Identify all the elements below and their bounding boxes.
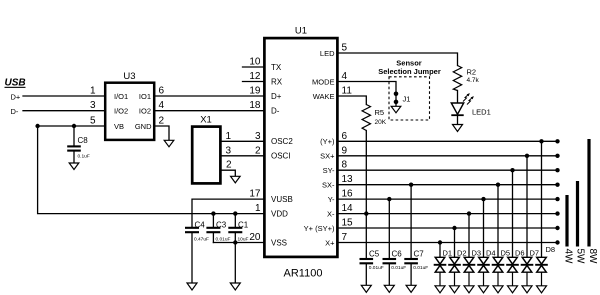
svg-text:VSS: VSS — [271, 238, 287, 247]
svg-text:4.7k: 4.7k — [467, 77, 480, 84]
svg-text:1: 1 — [226, 131, 232, 142]
svg-text:10: 10 — [249, 57, 261, 68]
svg-text:0.47uF: 0.47uF — [194, 237, 209, 243]
svg-text:8W: 8W — [587, 249, 598, 265]
svg-text:OSC2: OSC2 — [271, 137, 293, 146]
svg-text:Y+ (SY+): Y+ (SY+) — [304, 224, 335, 233]
svg-text:LED1: LED1 — [472, 108, 491, 117]
svg-text:C1: C1 — [238, 220, 249, 229]
svg-text:9: 9 — [342, 145, 348, 156]
svg-text:12: 12 — [249, 71, 261, 82]
svg-text:I/O2: I/O2 — [114, 107, 128, 116]
svg-text:Sensor: Sensor — [396, 58, 422, 67]
svg-text:D+: D+ — [11, 92, 21, 101]
svg-text:3: 3 — [255, 131, 261, 142]
svg-text:Y-: Y- — [328, 195, 335, 204]
svg-text:X-: X- — [327, 209, 335, 218]
svg-text:15: 15 — [342, 218, 354, 229]
svg-text:8: 8 — [342, 160, 348, 171]
svg-text:C6: C6 — [392, 250, 403, 259]
svg-text:0.01uF: 0.01uF — [413, 265, 428, 271]
svg-text:17: 17 — [249, 189, 261, 200]
svg-text:0.01uF: 0.01uF — [369, 265, 384, 271]
svg-text:2: 2 — [159, 115, 165, 126]
svg-text:MODE: MODE — [312, 77, 335, 86]
svg-text:C7: C7 — [414, 250, 425, 259]
svg-text:Selection Jumper: Selection Jumper — [378, 67, 441, 76]
svg-text:2: 2 — [255, 145, 261, 156]
svg-text:VDD: VDD — [271, 209, 288, 218]
svg-text:0.1uF: 0.1uF — [78, 154, 90, 160]
svg-text:RX: RX — [271, 77, 283, 86]
svg-text:X+: X+ — [325, 238, 335, 247]
svg-text:AR1100: AR1100 — [284, 268, 323, 280]
svg-text:18: 18 — [249, 100, 261, 111]
svg-text:D8: D8 — [546, 245, 556, 254]
svg-text:14: 14 — [342, 203, 354, 214]
svg-text:D3: D3 — [472, 249, 482, 258]
svg-text:LED: LED — [320, 49, 335, 58]
svg-text:TX: TX — [271, 63, 282, 72]
svg-text:IO1: IO1 — [139, 92, 151, 101]
svg-text:J1: J1 — [403, 95, 411, 104]
svg-text:SX-: SX- — [322, 181, 335, 190]
svg-text:13: 13 — [342, 174, 354, 185]
svg-text:D-: D- — [11, 107, 19, 116]
svg-text:OSCI: OSCI — [271, 152, 291, 161]
svg-text:D6: D6 — [515, 249, 525, 258]
svg-text:4W: 4W — [563, 249, 574, 265]
svg-text:2: 2 — [226, 160, 232, 171]
svg-text:20K: 20K — [375, 119, 387, 126]
svg-text:VUSB: VUSB — [271, 195, 293, 204]
svg-text:D+: D+ — [271, 92, 282, 101]
svg-text:16: 16 — [342, 189, 354, 200]
svg-text:D2: D2 — [457, 249, 467, 258]
svg-text:6: 6 — [342, 131, 348, 142]
svg-text:C8: C8 — [78, 136, 89, 145]
svg-text:0.01uF: 0.01uF — [216, 237, 231, 243]
svg-text:1: 1 — [255, 203, 261, 214]
svg-text:VB: VB — [114, 122, 124, 131]
svg-text:19: 19 — [249, 86, 261, 97]
svg-text:R5: R5 — [375, 108, 385, 117]
svg-text:4: 4 — [342, 71, 348, 82]
svg-text:X1: X1 — [200, 115, 212, 126]
svg-text:3: 3 — [90, 100, 96, 111]
svg-text:D7: D7 — [530, 249, 540, 258]
svg-text:WAKE: WAKE — [313, 92, 335, 101]
svg-text:4: 4 — [159, 100, 165, 111]
svg-text:0.01uF: 0.01uF — [391, 265, 406, 271]
svg-text:IO2: IO2 — [139, 107, 151, 116]
svg-text:20: 20 — [249, 232, 261, 243]
svg-text:D4: D4 — [486, 249, 496, 258]
svg-text:D-: D- — [271, 107, 280, 116]
svg-text:I/O1: I/O1 — [114, 92, 128, 101]
svg-text:U1: U1 — [295, 26, 307, 37]
svg-text:5: 5 — [90, 115, 96, 126]
svg-text:5W: 5W — [575, 249, 586, 265]
svg-text:(Y+): (Y+) — [320, 137, 335, 146]
svg-text:7: 7 — [342, 232, 348, 243]
svg-text:3: 3 — [226, 145, 232, 156]
svg-text:1: 1 — [90, 86, 96, 97]
svg-text:C4: C4 — [195, 220, 206, 229]
svg-text:GND: GND — [135, 122, 152, 131]
svg-text:C5: C5 — [369, 250, 380, 259]
svg-text:R2: R2 — [467, 68, 477, 77]
svg-text:C3: C3 — [216, 220, 227, 229]
svg-text:5: 5 — [342, 43, 348, 54]
svg-text:U3: U3 — [123, 71, 135, 82]
svg-text:6: 6 — [159, 86, 165, 97]
svg-text:SX+: SX+ — [320, 152, 335, 161]
svg-text:D1: D1 — [443, 249, 453, 258]
svg-text:D5: D5 — [501, 249, 511, 258]
svg-text:10uF: 10uF — [238, 237, 249, 243]
svg-text:SY-: SY- — [323, 166, 335, 175]
svg-text:11: 11 — [342, 86, 353, 97]
